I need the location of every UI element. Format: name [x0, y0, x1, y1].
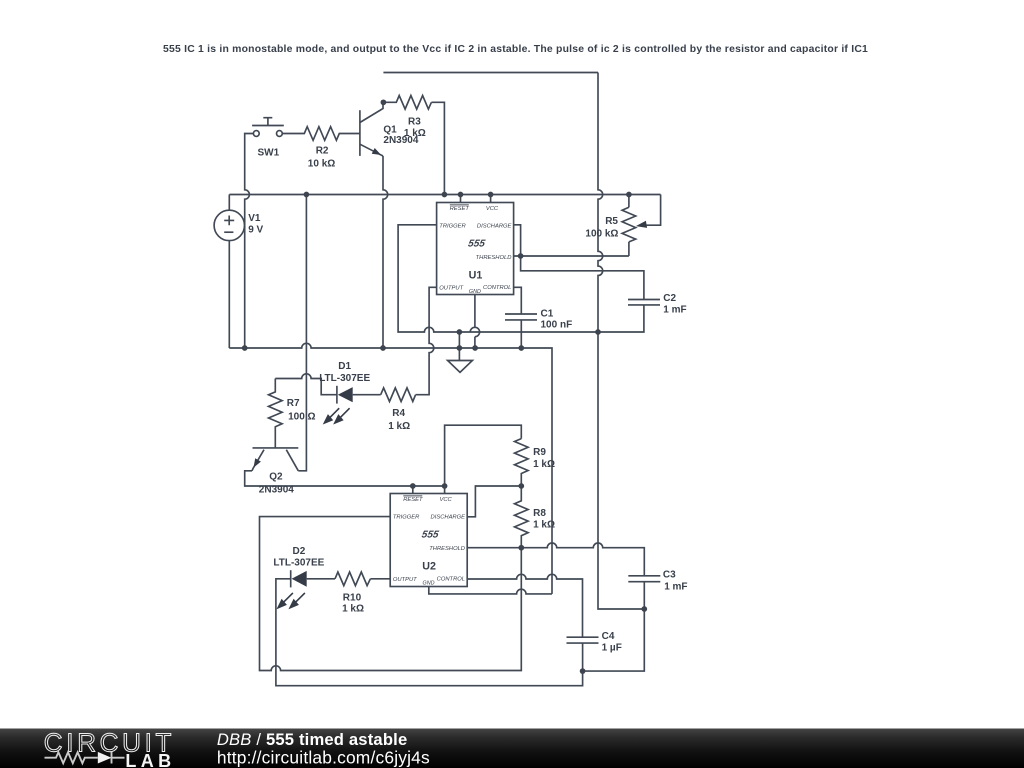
wire V1 bottom lead	[228, 240, 230, 348]
node C2-line/collector-column junction	[595, 329, 601, 335]
wire threshold node to C2 top	[521, 256, 644, 300]
svg-text:TRIGGER: TRIGGER	[439, 223, 466, 229]
svg-text:DISCHARGE: DISCHARGE	[477, 223, 512, 229]
svg-text:RESET: RESET	[403, 497, 423, 503]
wire R5 bottom lead	[628, 242, 630, 256]
node R3/bus junction	[442, 192, 448, 198]
wire C3 bottom lead	[643, 582, 645, 609]
svg-text:R9: R9	[533, 447, 546, 458]
IC U2 box	[390, 494, 467, 587]
svg-text:THRESHOLD: THRESHOLD	[429, 546, 465, 552]
wire U2 DISCHARGE up to R8/R9 node	[467, 486, 521, 517]
U2 RESET overline	[403, 495, 422, 497]
svg-text:1 kΩ: 1 kΩ	[404, 128, 426, 139]
node U2-VCC/R9 junction	[442, 483, 448, 489]
LED D2 cathode bar	[290, 570, 292, 587]
svg-text:CONTROL: CONTROL	[483, 285, 511, 291]
node U2-RESET junction	[410, 483, 416, 489]
svg-text:1 mF: 1 mF	[664, 582, 687, 593]
resistor R2	[282, 127, 360, 141]
resistor R4	[381, 388, 416, 402]
U1 pin labels	[439, 206, 511, 295]
svg-text:R7: R7	[287, 398, 300, 409]
wire U2 VCC stub	[444, 486, 446, 494]
svg-text:C4: C4	[602, 631, 615, 642]
svg-text:LTL-307EE: LTL-307EE	[319, 373, 370, 384]
svg-text:RESET: RESET	[450, 206, 470, 212]
node Q1-emitter/ground-rail junction	[380, 345, 386, 351]
node R9/R8/DISCHARGE junction	[518, 483, 524, 489]
wire Q1 collector top link	[383, 72, 598, 74]
svg-text:R3: R3	[408, 116, 421, 127]
svg-text:R5: R5	[605, 216, 618, 227]
LED D1 light arrows	[278, 408, 350, 608]
svg-text:C1: C1	[541, 309, 554, 320]
label U2 part number 555	[421, 529, 440, 540]
svg-text:C2: C2	[663, 293, 676, 304]
svg-text:CONTROL: CONTROL	[437, 576, 465, 582]
CircuitLab logo resistor-diode glyph	[45, 752, 125, 764]
svg-text:VCC: VCC	[486, 206, 499, 212]
ground symbol	[448, 361, 473, 373]
node U1-GND/ground-rail junction	[472, 345, 478, 351]
node U1-VCC/bus junction	[488, 192, 494, 198]
svg-text:2N3904: 2N3904	[259, 485, 294, 496]
wire U1 VCC stub	[490, 195, 492, 203]
wire R9 top link down to VCC node	[445, 425, 522, 486]
capacitor C4 plates	[567, 637, 599, 643]
svg-text:10 kΩ: 10 kΩ	[308, 159, 335, 170]
R5 wiper arrowhead	[636, 221, 647, 228]
wire U2 RESET stub	[412, 486, 414, 494]
svg-text:THRESHOLD: THRESHOLD	[476, 255, 512, 261]
capacitor C3 plates	[628, 576, 660, 582]
svg-text:555: 555	[467, 238, 486, 249]
IC U1 box	[437, 203, 514, 295]
switch SW1	[252, 118, 284, 137]
wire U2 THRESHOLD line to C3 top (hops over two columns)	[467, 543, 644, 576]
LED D1 cathode bar	[336, 386, 338, 404]
svg-text:http://circuitlab.com/c6jyj4s: http://circuitlab.com/c6jyj4s	[217, 748, 430, 768]
wire U1 CONTROL to C1 top	[514, 287, 522, 314]
node C3-bottom/ground junction	[641, 606, 647, 612]
wire C1 bottom to ground rail	[520, 320, 522, 348]
wire Vcc bus	[229, 194, 660, 196]
U2 pin labels	[393, 497, 465, 586]
wire Q2 emitter to U2 reset/vcc line	[245, 471, 445, 486]
svg-text:9 V: 9 V	[248, 225, 263, 236]
LED D2 triangle	[292, 571, 307, 587]
svg-text:D1: D1	[338, 361, 351, 372]
wire Q2 collector column up to bus	[298, 195, 306, 471]
svg-text:100 Ω: 100 Ω	[288, 412, 315, 423]
LED D2 light arrows	[282, 593, 293, 604]
node Q2-collector/bus junction	[304, 192, 310, 198]
node U1-RESET/bus junction	[458, 192, 464, 198]
svg-text:1 µF: 1 µF	[602, 643, 622, 654]
Q2 emitter arrowhead	[254, 458, 261, 468]
wire R5 wiper from bus	[646, 195, 660, 226]
svg-text:DISCHARGE: DISCHARGE	[431, 514, 466, 520]
node Q1-collector/R3 junction	[381, 99, 387, 105]
wire U2 CONTROL to C4 top (hops over two columns)	[467, 574, 582, 637]
resistor R8	[515, 486, 529, 548]
svg-text:VCC: VCC	[439, 497, 452, 503]
node ground-symbol junction	[457, 345, 463, 351]
filled parts	[254, 148, 648, 587]
Q1 emitter arrowhead	[372, 148, 382, 155]
svg-text:1 kΩ: 1 kΩ	[388, 421, 410, 432]
svg-text:LAB: LAB	[125, 751, 175, 768]
wire V1 top lead	[228, 195, 230, 211]
wire R5 top lead	[628, 195, 630, 208]
node ground-branch upper junction	[457, 329, 463, 335]
wire U1 OUTPUT down to R4 (hop over ground rail)	[416, 287, 437, 394]
wire Q1 emitter down (hop over bus)	[383, 156, 388, 348]
wire ground rail (hop over Q2 collector line)	[229, 343, 552, 594]
wire C4 bottom to ground node	[582, 643, 584, 671]
resistor R7	[269, 379, 283, 448]
node C1/ground-rail junction	[518, 345, 524, 351]
svg-text:C3: C3	[663, 570, 676, 581]
wire ground symbol branch	[458, 332, 460, 361]
svg-text:V1: V1	[248, 213, 261, 224]
wire collector column down to ground line (hops at bus, threshold, C2 line)	[598, 73, 644, 610]
svg-text:1 mF: 1 mF	[663, 305, 686, 316]
wire U1 DISCHARGE down to threshold node	[514, 225, 521, 256]
wire R3 right lead down to bus	[431, 102, 444, 194]
svg-text:1 kΩ: 1 kΩ	[533, 520, 555, 531]
svg-text:GND: GND	[469, 289, 481, 295]
wire SW1 left terminal down (hop over bus)	[245, 134, 254, 349]
svg-text:SW1: SW1	[258, 147, 280, 158]
resistor R3	[383, 96, 431, 110]
node R5-top/bus junction	[626, 192, 632, 198]
svg-text:1 kΩ: 1 kΩ	[533, 459, 555, 470]
transistor Q1	[360, 102, 383, 156]
svg-text:555 IC 1 is in monostable mode: 555 IC 1 is in monostable mode, and outp…	[163, 44, 868, 55]
wire U1 TRIGGER to ground line (hop over OUTPUT wire)	[398, 225, 644, 332]
battery V1	[214, 210, 244, 240]
svg-text:555: 555	[421, 529, 440, 540]
svg-text:R2: R2	[316, 145, 329, 156]
svg-text:100 kΩ: 100 kΩ	[585, 229, 618, 240]
wire U1 THRESHOLD to R5 bottom	[514, 255, 629, 257]
svg-text:LTL-307EE: LTL-307EE	[273, 557, 324, 568]
node U1 DISCHARGE/THRESHOLD junction	[518, 253, 524, 259]
node R8/THRESHOLD/TRIGGER junction	[518, 545, 524, 551]
capacitor C2 plates	[628, 300, 660, 305]
node C4-bottom/ground junction	[580, 668, 586, 674]
svg-text:U2: U2	[422, 560, 436, 572]
svg-text:DBB / 555 timed astable: DBB / 555 timed astable	[217, 730, 407, 749]
transistor Q2	[252, 448, 298, 471]
svg-text:R10: R10	[343, 593, 362, 604]
svg-text:D2: D2	[293, 546, 306, 557]
wire U2 GND pin to ground rail (hop over R8 column)	[429, 587, 552, 594]
svg-text:R8: R8	[533, 508, 546, 519]
svg-text:GND: GND	[423, 580, 435, 586]
U1 RESET overline	[450, 204, 469, 206]
svg-text:Q2: Q2	[269, 472, 283, 483]
potentiometer R5 zigzag	[622, 207, 636, 242]
wire ground bottom loop C3/C4/D2 cathode	[276, 579, 644, 686]
wire U2 TRIGGER loop to threshold node (hop over D2 wire)	[260, 517, 522, 671]
svg-text:100 nF: 100 nF	[541, 320, 573, 331]
svg-text:OUTPUT: OUTPUT	[439, 286, 463, 292]
svg-text:Q1: Q1	[383, 125, 397, 136]
svg-text:TRIGGER: TRIGGER	[393, 514, 420, 520]
svg-text:U1: U1	[469, 269, 483, 281]
CircuitLab logo diode triangle	[98, 752, 112, 764]
wire R10 right lead to U2 OUTPUT	[370, 578, 390, 580]
wire D2 anode to R10	[307, 578, 335, 580]
wire D1 anode to R4 left lead	[353, 394, 381, 396]
svg-text:OUTPUT: OUTPUT	[393, 577, 417, 583]
resistor R10	[335, 572, 370, 586]
label U1 part number 555	[467, 238, 486, 249]
wire R7 top to D1 cathode (hop over collector column)	[275, 374, 337, 395]
wire U1 GND pin (loop hop over ground line)	[474, 295, 476, 328]
node SW1/ground-rail junction	[242, 345, 248, 351]
wire U1 RESET stub	[460, 195, 462, 203]
LED D1 triangle	[338, 387, 353, 402]
svg-text:1 kΩ: 1 kΩ	[342, 603, 364, 614]
capacitor C1 plates	[505, 314, 537, 320]
svg-text:R4: R4	[392, 408, 405, 419]
resistor R9	[515, 439, 529, 486]
